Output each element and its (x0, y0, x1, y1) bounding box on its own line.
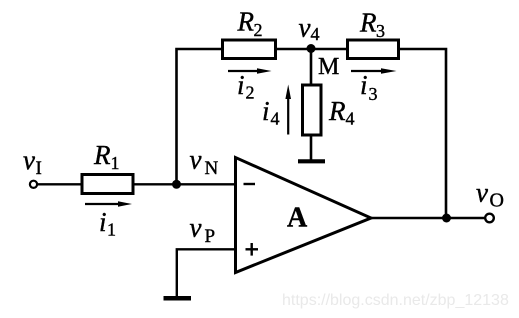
svg-text:4: 4 (346, 109, 355, 129)
svg-text:i: i (262, 96, 270, 126)
svg-text:N: N (205, 158, 219, 179)
svg-text:i: i (360, 70, 368, 100)
svg-text:1: 1 (107, 220, 116, 240)
svg-text:R: R (93, 140, 111, 170)
svg-text:4: 4 (311, 24, 320, 44)
svg-text:M: M (318, 54, 339, 80)
svg-text:v: v (299, 13, 311, 43)
svg-text:v: v (190, 213, 202, 243)
svg-text:I: I (36, 158, 42, 179)
svg-text:i: i (237, 70, 245, 100)
svg-text:3: 3 (369, 84, 378, 104)
svg-text:R: R (359, 8, 377, 38)
svg-text:v: v (23, 145, 35, 175)
svg-text:R: R (328, 96, 346, 126)
svg-text:v: v (476, 178, 488, 208)
svg-text:P: P (205, 226, 216, 247)
svg-text:https://blog.csdn.net/zbp_1213: https://blog.csdn.net/zbp_12138 (282, 292, 509, 309)
svg-text:1: 1 (111, 153, 120, 173)
svg-text:O: O (490, 190, 504, 212)
svg-text:3: 3 (376, 21, 385, 41)
svg-text:2: 2 (246, 83, 255, 103)
svg-text:v: v (190, 145, 202, 175)
svg-text:2: 2 (254, 20, 263, 40)
svg-text:4: 4 (271, 109, 280, 129)
svg-text:A: A (287, 203, 308, 234)
svg-text:i: i (99, 207, 107, 237)
svg-text:R: R (237, 7, 255, 37)
